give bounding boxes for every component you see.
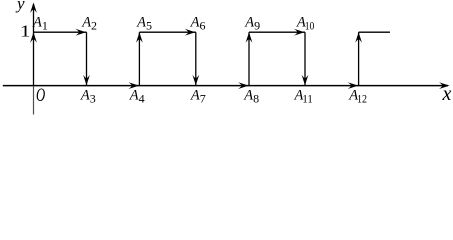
arrowhead at A2 bbox=[76, 29, 87, 36]
wire A2-A3 bbox=[86, 32, 88, 86]
arrowhead at A11 bbox=[302, 75, 309, 86]
arrowhead at A10 bbox=[294, 29, 305, 36]
arrowhead at A3 bbox=[83, 75, 90, 86]
segment O to A1 (on y-axis), up arrowhead at A1 bbox=[30, 32, 37, 43]
wire A5-A6 bbox=[139, 31, 195, 33]
wire A12 up bbox=[358, 32, 360, 86]
y-axis bbox=[33, 4, 35, 86]
svg-text:1: 1 bbox=[20, 23, 31, 41]
y-axis arrowhead bbox=[30, 3, 37, 14]
svg-text:x: x bbox=[442, 83, 452, 105]
svg-text:O: O bbox=[36, 85, 45, 106]
wire A1-A2 bbox=[34, 31, 87, 33]
arrowhead at A6 bbox=[185, 29, 196, 36]
wire A4-A5 bbox=[138, 32, 140, 86]
wire A9-A10 bbox=[249, 31, 305, 33]
wire A7-A8 (on x-axis), arrowhead at A8 bbox=[238, 82, 249, 89]
wire A8-A9 bbox=[248, 32, 250, 86]
svg-text:y: y bbox=[15, 0, 25, 13]
arrowhead at A7 bbox=[192, 75, 199, 86]
wire A6-A7 bbox=[195, 32, 197, 86]
wire top right bbox=[359, 31, 390, 33]
y-axis tail below x-axis bbox=[33, 86, 35, 115]
arrowhead at A5 bbox=[136, 32, 143, 43]
wire A11-A12 (on x-axis), arrowhead at A12 bbox=[348, 82, 359, 89]
x-axis arrowhead bbox=[439, 82, 450, 89]
wire A3-A4 (on x-axis), arrowhead at A4 bbox=[129, 82, 140, 89]
arrowhead at A9 bbox=[246, 32, 253, 43]
wire A10-A11 bbox=[304, 32, 306, 86]
x-axis bbox=[3, 85, 448, 87]
arrowhead top of A12 riser bbox=[355, 32, 362, 43]
